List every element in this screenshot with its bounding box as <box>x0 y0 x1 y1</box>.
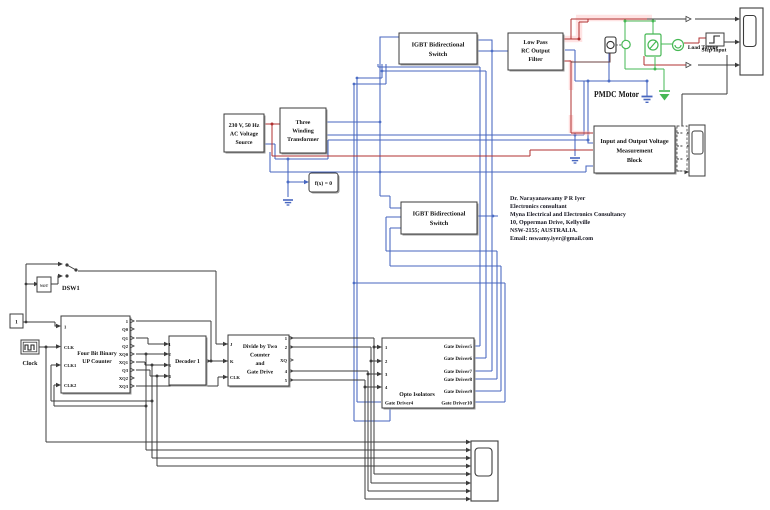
wire: IGBT1 bottom port c to opto bottom port <box>354 64 390 421</box>
wire: switch output loop to divider J <box>78 271 228 344</box>
wire: IGBT2 gate c to opto out9 <box>390 228 501 391</box>
wire: IGBT2 right stub <box>477 215 498 217</box>
wire: transformer bottom to measurement input4 <box>270 152 593 172</box>
svg-text:CLK: CLK <box>230 375 240 380</box>
block Decoder 1 <box>169 336 208 387</box>
wire: down link to display bus <box>682 55 727 126</box>
svg-text:CLK2: CLK2 <box>64 383 77 388</box>
ground green capacitor under motor <box>659 90 670 92</box>
arrow: dsw1 throws <box>58 262 63 267</box>
block Low Pass RC Output Filter <box>508 33 565 72</box>
counter Four Bit Binary UP Counter <box>61 316 134 395</box>
block Load Torque Step Input <box>688 33 727 54</box>
scope gate drive scope <box>471 441 498 501</box>
arrow: mid-wire open arrow row3 <box>686 62 691 67</box>
arrow: gate scope inputs <box>466 440 471 445</box>
wire: motor torque feed <box>644 38 706 65</box>
node: solver ground tap <box>287 181 290 184</box>
wire: machine to speed sensor <box>661 43 672 45</box>
source constant 1 <box>10 314 23 328</box>
wire: transformer sec3 to measurement input2 <box>264 81 593 159</box>
wire: IGBT1 bottom port a loop to opto out5 <box>378 64 480 346</box>
wire: decoder output to divider K <box>206 360 228 362</box>
wire: divider out4 to opto in4 and scope in8 <box>289 380 469 499</box>
svg-text:Switch: Switch <box>429 51 448 58</box>
wire: IGBT1 output to low pass filter <box>477 50 508 52</box>
svg-text:K: K <box>230 359 234 364</box>
wire: transformer neutral to solver block <box>288 159 305 197</box>
wire: feedback to CLK2 <box>54 385 146 406</box>
ground blue under motor <box>642 97 653 103</box>
arrow: decoder inputs <box>164 342 169 347</box>
wire: counter Q1 to decoder in1 <box>136 338 169 344</box>
subsystem Opto Isolators <box>382 338 476 410</box>
wire: IGBT1 right port down right bundle to opto out7 <box>474 40 492 371</box>
annotation: author address text <box>510 196 626 242</box>
svg-text:Dr. Narayanaswamy P R Iyer: Dr. Narayanaswamy P R Iyer <box>510 196 586 202</box>
svg-text:XQ: XQ <box>280 358 287 363</box>
svg-text:CLK1: CLK1 <box>64 363 77 368</box>
counter output chevrons <box>130 319 134 388</box>
subsystem Input and Output Voltage Measurement Block <box>594 126 677 175</box>
svg-text:Electronics consultant: Electronics consultant <box>510 203 567 210</box>
arrow: display bus outputs <box>685 131 690 135</box>
svg-text:NOT: NOT <box>40 284 49 288</box>
svg-text:Gate Driver8: Gate Driver8 <box>444 377 473 383</box>
wire: feedback to CLK1 <box>51 365 152 401</box>
node: motor rail taps <box>608 80 611 83</box>
subsystem IGBT Bidirectional Switch 1 <box>399 33 479 66</box>
block solver f(x)=0 <box>309 173 340 194</box>
svg-text:Opto Isolators: Opto Isolators <box>399 391 435 398</box>
wire: speed row to scope3 <box>698 64 736 66</box>
arrow: scope1 input <box>735 17 740 22</box>
svg-text:Gate Driver10: Gate Driver10 <box>441 401 472 407</box>
svg-text:Four Bit Binary: Four Bit Binary <box>77 350 117 357</box>
arrow: divider inputs <box>223 342 228 347</box>
subsystem IGBT Bidirectional Switch 2 <box>401 202 479 236</box>
wire: motor plus rail green <box>624 21 656 40</box>
svg-text:Low Pass: Low Pass <box>523 40 548 46</box>
sensor voltage measurement black <box>605 37 616 53</box>
svg-text:Counter: Counter <box>250 353 270 359</box>
wire: lower rail to opto out10 <box>354 283 505 402</box>
wire: divider outXQ to opto in3 and scope in7 <box>289 371 469 491</box>
wire: divider out2 to opto in2 and scope in6 <box>289 347 469 483</box>
svg-text:f(x) = 0: f(x) = 0 <box>315 181 332 187</box>
svg-text:Measurement: Measurement <box>616 148 653 155</box>
svg-text:IGBT Bidirectional: IGBT Bidirectional <box>413 211 466 218</box>
wire: voltage sensor drop <box>571 53 610 62</box>
node: red tee at filter output <box>578 38 581 41</box>
wire: transformer sec1 to IGBT1 port1 <box>326 37 401 208</box>
arrow: scope2 input <box>735 40 740 45</box>
svg-text:NSW-2155; AUSTRALIA.: NSW-2155; AUSTRALIA. <box>510 228 578 234</box>
wire: switch blade <box>67 265 76 270</box>
scope measurement scope <box>689 125 705 176</box>
machine PMDC motor block green <box>645 34 661 56</box>
node: sec2 ground tap <box>574 134 577 137</box>
svg-text:230 V, 50 Hz: 230 V, 50 Hz <box>229 123 260 129</box>
wire: transformer sec2 long rail to motor common <box>326 50 647 156</box>
arrow: not gate input <box>34 282 39 287</box>
svg-text:DSW1: DSW1 <box>62 285 80 292</box>
svg-text:Decoder 1: Decoder 1 <box>175 358 200 365</box>
svg-text:Block: Block <box>627 157 643 164</box>
svg-text:Step Input: Step Input <box>702 48 727 54</box>
svg-text:1: 1 <box>15 320 18 326</box>
wire: counter XQ0 to decoder in2 <box>136 353 169 355</box>
svg-text:Q0: Q0 <box>122 327 129 332</box>
svg-text:and: and <box>255 361 265 367</box>
svg-text:Clock: Clock <box>23 360 39 367</box>
ground blue near solver <box>283 200 293 205</box>
node: red tee at AC source <box>271 123 274 126</box>
wire: IGBT1 bottom port b loop to opto out6 <box>382 64 486 358</box>
source Clock <box>21 340 39 367</box>
wire: dsw1 top feed <box>26 264 61 322</box>
wire: not gate input <box>26 283 35 285</box>
svg-text:XQ2: XQ2 <box>119 376 129 381</box>
source 230 V 50 Hz AC Voltage Source <box>224 114 266 154</box>
svg-text:Divide by Two: Divide by Two <box>243 344 277 350</box>
svg-text:Q1: Q1 <box>122 336 129 341</box>
svg-text:Gate Driver5: Gate Driver5 <box>444 344 473 350</box>
svg-text:XQ1: XQ1 <box>119 360 129 365</box>
wire: not gate output to switch lower throw <box>51 276 61 284</box>
svg-text:10, Opperman Drive, Kellyville: 10, Opperman Drive, Kellyville <box>510 219 590 226</box>
node: black junctions <box>25 321 28 324</box>
wire: current sensor to machine bottom <box>625 49 664 90</box>
svg-text:Gate Driver6: Gate Driver6 <box>444 356 473 362</box>
wire: tap to gate scope in2 <box>146 354 469 450</box>
block display bus selector <box>677 126 687 171</box>
wire: filter output selected red net <box>563 19 647 133</box>
svg-text:Q3: Q3 <box>122 368 129 373</box>
svg-text:RC Output: RC Output <box>521 49 550 55</box>
wire: gate driver4 feed long left vertical <box>357 78 382 402</box>
svg-text:Email: nswamy.iyer@gmail.com: Email: nswamy.iyer@gmail.com <box>510 235 593 242</box>
svg-text:Gate Drive: Gate Drive <box>247 370 274 376</box>
junction dots blue <box>287 50 649 285</box>
sensor speed measurement green <box>673 40 684 51</box>
wire: counter XQ3 to divider CLK <box>136 377 228 386</box>
block NOT gate DSW1 driver <box>37 277 51 292</box>
wire: clock tap to gate scope in1 <box>46 347 469 442</box>
wire: counter Q3 to decoder in4 <box>136 370 169 376</box>
arrow: counter port inputs <box>56 324 61 329</box>
wire: tap to gate scope in4 <box>157 376 469 466</box>
arrow: solver input <box>304 180 309 185</box>
svg-text:Gate Driver9: Gate Driver9 <box>444 389 473 395</box>
arrow: opto inputs <box>377 345 382 350</box>
svg-text:Transformer: Transformer <box>287 136 319 143</box>
svg-text:Gate Driver7: Gate Driver7 <box>444 369 473 375</box>
wire: dashed link sensor to current sensor <box>616 44 622 46</box>
arrow: scope3 input <box>735 63 740 68</box>
svg-text:Q2: Q2 <box>122 344 129 349</box>
svg-text:UP Counter: UP Counter <box>82 359 112 365</box>
wire: selected red highlight glow <box>563 17 652 133</box>
svg-text:Filter: Filter <box>528 56 543 63</box>
wire: step block to scope2 <box>724 41 736 43</box>
svg-text:Winding: Winding <box>292 128 314 135</box>
node: loop junctions <box>381 70 384 73</box>
wire: top rail to scope1 <box>647 18 736 20</box>
arrow: mid-wire open arrow top rail <box>686 16 691 21</box>
wire: tap to gate scope in3 <box>152 365 469 458</box>
svg-text:IGBT Bidirectional: IGBT Bidirectional <box>412 42 465 49</box>
svg-text:XQ3: XQ3 <box>119 384 129 389</box>
wire: clock output <box>39 346 57 348</box>
svg-text:Three: Three <box>296 119 311 126</box>
svg-text:Switch: Switch <box>430 220 449 227</box>
block Divide by Two Counter and Gate Drive <box>228 335 291 388</box>
svg-text:Myna Electrical and Electronic: Myna Electrical and Electronics Consulta… <box>510 211 626 218</box>
wire: constant to counter input1 <box>23 322 59 326</box>
wire: AC source hot to transformer and long red rail <box>264 124 593 156</box>
chevron: divider output ports <box>206 336 293 382</box>
wire: IGBT2 gate b to opto out8 <box>386 217 497 379</box>
svg-text:Input and Output Voltage: Input and Output Voltage <box>600 138 669 145</box>
svg-text:Source: Source <box>236 140 253 146</box>
wire: counter out1 to K junction <box>136 321 211 361</box>
svg-text:CLK: CLK <box>64 345 74 350</box>
transformer Three Winding Transformer <box>280 108 328 155</box>
svg-text:Gate Driver4: Gate Driver4 <box>385 401 414 407</box>
ground blue near measurement <box>570 158 580 163</box>
svg-text:XQ0: XQ0 <box>119 352 129 357</box>
wire: divider out1 to opto in1 and scope in5 <box>289 338 469 474</box>
scope motor scope <box>740 8 763 75</box>
wire: counter XQ1 to decoder in3 <box>136 362 169 365</box>
node: green taps <box>624 20 627 23</box>
svg-text:PMDC Motor: PMDC Motor <box>594 89 639 99</box>
sensor current measurement green <box>622 40 630 48</box>
svg-text:AC Voltage: AC Voltage <box>230 131 259 138</box>
